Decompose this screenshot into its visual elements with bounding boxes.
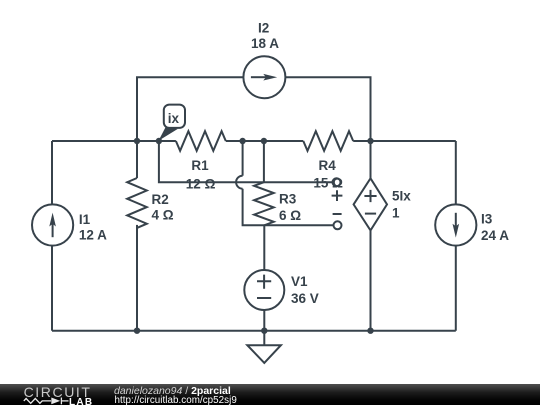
svg-text:6 Ω: 6 Ω bbox=[279, 208, 301, 223]
svg-text:I1: I1 bbox=[79, 212, 91, 227]
svg-text:ix: ix bbox=[168, 111, 180, 126]
svg-text:R4: R4 bbox=[319, 158, 337, 173]
svg-text:R2: R2 bbox=[152, 192, 169, 207]
svg-text:1: 1 bbox=[392, 205, 400, 220]
svg-text:15 Ω: 15 Ω bbox=[313, 176, 343, 191]
svg-text:24 A: 24 A bbox=[481, 228, 509, 243]
svg-text:36 V: 36 V bbox=[291, 291, 319, 306]
svg-text:12 A: 12 A bbox=[79, 228, 107, 243]
svg-text:R1: R1 bbox=[191, 158, 209, 173]
svg-text:5Ix: 5Ix bbox=[392, 188, 411, 203]
svg-text:12 Ω: 12 Ω bbox=[186, 176, 216, 191]
svg-text:I3: I3 bbox=[481, 211, 493, 226]
svg-text:R3: R3 bbox=[279, 192, 297, 207]
svg-text:V1: V1 bbox=[291, 274, 308, 289]
svg-text:I2: I2 bbox=[258, 20, 269, 35]
svg-text:4 Ω: 4 Ω bbox=[152, 207, 174, 222]
svg-text:18 A: 18 A bbox=[251, 36, 279, 51]
